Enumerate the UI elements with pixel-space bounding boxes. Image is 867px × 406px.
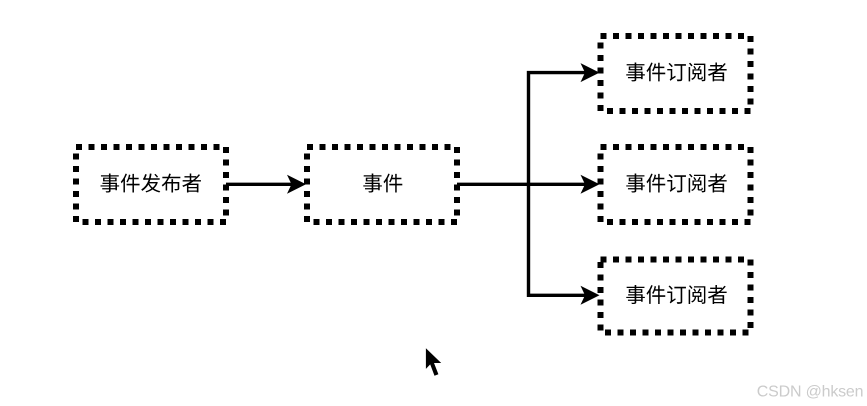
wire: branch down and to bottom subscriber: [529, 184, 587, 295]
arrowhead: into bottom subscriber: [581, 286, 600, 305]
svg-text:CSDN @hksen: CSDN @hksen: [757, 383, 864, 400]
label: 事件订阅者 (event subscriber) middle: [626, 174, 726, 193]
arrowhead: into middle subscriber: [581, 175, 600, 194]
box: event: [307, 147, 457, 222]
wire: branch up and to top subscriber: [529, 73, 587, 185]
label: 事件订阅者 (event subscriber) bottom: [626, 285, 726, 304]
mouse cursor: [426, 348, 441, 375]
arrowhead: into event box: [287, 175, 306, 194]
box: event publisher: [76, 147, 226, 222]
box: event subscriber bottom: [601, 260, 751, 333]
box: event subscriber middle: [601, 147, 751, 222]
label: 事件发布者 (event publisher): [101, 173, 201, 192]
wire: event to middle subscriber (trunk): [457, 183, 586, 186]
box: event subscriber top: [601, 36, 751, 111]
arrowhead: into top subscriber: [581, 63, 600, 82]
label: 事件订阅者 (event subscriber) top: [626, 62, 726, 81]
label: 事件 (event): [363, 174, 402, 193]
wire: publisher to event: [226, 183, 292, 186]
